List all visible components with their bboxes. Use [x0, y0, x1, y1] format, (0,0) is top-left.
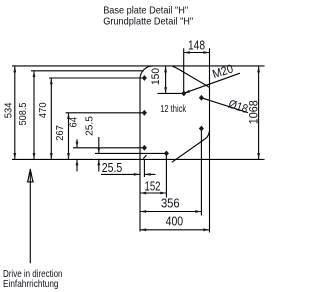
dim line 152 [140, 192, 166, 194]
plate right edge (extended up to 148 dim and down to 400 dim) [209, 48, 211, 232]
bolt column line from B3 down (356 extension) [200, 129, 202, 216]
drive direction arrow shaft [29, 169, 31, 263]
lower break line of girder [172, 132, 210, 163]
svg-text:150: 150 [150, 68, 162, 85]
bolt marker B2 [199, 95, 204, 101]
svg-text:64: 64 [69, 117, 80, 128]
svg-text:356: 356 [161, 196, 180, 211]
150 arrows [164, 66, 167, 73]
plate top-left corner arc r=13 [140, 66, 153, 79]
svg-text:25.5: 25.5 [84, 116, 95, 136]
svg-text:Base plate Detail "H": Base plate Detail "H" [103, 5, 188, 16]
bolt marker B1 [181, 91, 186, 97]
plate left edge (extended down for bottom dims) [139, 79, 141, 232]
dim line 25.5 bottom, outside segments [101, 173, 140, 175]
dim line 534 [14, 66, 16, 159]
64 outside arrows [76, 142, 79, 148]
arrowheads: left column dims, up at tops [13, 66, 16, 73]
dim line 148 [184, 52, 210, 54]
svg-text:470: 470 [38, 102, 49, 118]
svg-text:508.5: 508.5 [18, 102, 29, 125]
152 arrows [140, 192, 146, 195]
bolt marker B6 [142, 75, 147, 81]
arrowheads: down at bottom edge [13, 153, 16, 159]
extension line 148 left / bolt column [183, 48, 185, 93]
svg-text:Einfahrrichtung: Einfahrrichtung [3, 278, 59, 290]
svg-text:Grundplatte Detail "H": Grundplatte Detail "H" [103, 16, 193, 27]
dim line 400 [140, 229, 210, 231]
extension 152 right [165, 156, 167, 198]
svg-text:12 thick: 12 thick [160, 104, 187, 115]
svg-text:152: 152 [145, 178, 161, 193]
svg-text:534: 534 [3, 102, 14, 118]
drive arrow crossbar [27, 181, 34, 183]
M20 leader arrowhead at bolt B1 [184, 90, 190, 93]
bolt marker B4 [142, 145, 147, 151]
plate top edge (extended both sides as extension line) [12, 65, 265, 67]
M20 leader line [184, 73, 240, 93]
svg-text:25.5: 25.5 [102, 160, 123, 175]
dim line 470 [50, 78, 52, 159]
dim line 150 [165, 66, 167, 94]
1068 arrows [257, 66, 260, 73]
svg-text:267: 267 [55, 125, 66, 141]
extension line 64 row [73, 147, 144, 149]
148 arrows [184, 51, 190, 54]
Phi18 leader line [201, 98, 248, 113]
dim 25.5-left outside arrow segments [98, 137, 100, 153]
plate bottom edge (extended both sides) [12, 158, 265, 160]
dim line 508.5 [33, 71, 35, 160]
upper break line of girder [173, 66, 210, 88]
extension line 508.5 [31, 70, 144, 72]
extension 25.5-bottom right (bolt column A) [143, 159, 145, 177]
bolt marker B3 [199, 126, 204, 132]
bolt marker B7 [142, 110, 147, 116]
400 arrows [140, 228, 146, 231]
svg-text:400: 400 [166, 214, 184, 229]
356 arrows [140, 210, 146, 213]
dim line 1068 [258, 66, 260, 159]
extension line 25.5 row [95, 152, 166, 154]
drive direction arrowhead (open) [28, 169, 33, 181]
extension line 267 [66, 112, 145, 114]
dim line 356 [140, 211, 201, 213]
25.5-left outside arrows [97, 148, 100, 154]
break hook tick near plate bottom-left [143, 155, 146, 159]
dim 64 outside arrow segments [76, 139, 78, 148]
svg-text:148: 148 [188, 38, 205, 53]
extension line 470 [49, 77, 144, 79]
dim line 267 [68, 113, 70, 160]
extension line 150 bottom / bolt row [158, 92, 184, 94]
25.5-bottom outside arrows [134, 173, 140, 176]
bolt marker B5 [164, 151, 169, 157]
